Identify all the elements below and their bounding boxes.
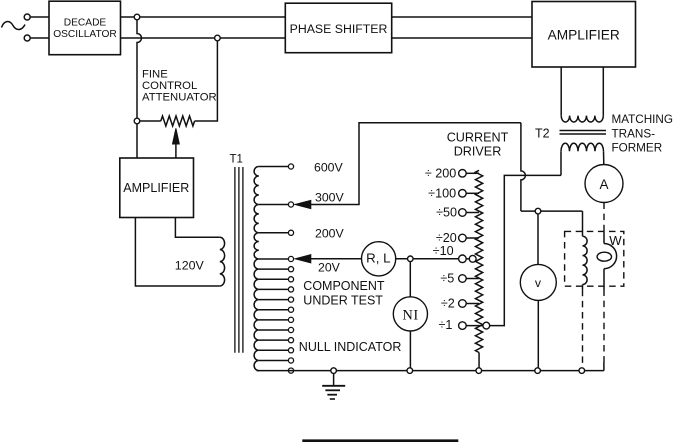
- svg-text:T1: T1: [230, 154, 243, 166]
- svg-text:DRIVER: DRIVER: [454, 145, 502, 159]
- junction node above null indicator: [408, 256, 414, 262]
- junction node bus at ground: [331, 368, 337, 374]
- input terminal lower: [24, 35, 30, 41]
- junction node attenuator left: [134, 118, 140, 124]
- wattmeter voltage coil: [604, 244, 617, 269]
- wattmeter voltage coil lead: [603, 231, 605, 243]
- svg-text:CURRENT: CURRENT: [447, 131, 509, 145]
- svg-text:PHASE SHIFTER: PHASE SHIFTER: [290, 22, 388, 36]
- dashed lead ammeter to wattmeter box: [603, 203, 605, 232]
- ground bus wire: [257, 370, 604, 372]
- wire 300V selector to current driver top line: [310, 123, 521, 205]
- svg-text:A: A: [599, 177, 608, 192]
- wattmeter current coil tail: [582, 285, 584, 290]
- svg-text:AMPLIFIER: AMPLIFIER: [123, 181, 189, 195]
- junction node upper rail: [134, 14, 140, 20]
- divider tap terminals: [459, 170, 467, 178]
- wire amplifier to T2 primary right: [602, 67, 604, 116]
- svg-text:OSCILLATOR: OSCILLATOR: [53, 29, 117, 40]
- junction node bus at NI: [407, 368, 413, 374]
- wire lower rail oscillator to phase shifter: [121, 37, 286, 39]
- block AMPLIFIER left: [120, 158, 194, 218]
- selector arrow at 20V tap: [295, 255, 311, 263]
- svg-text:TRANS-: TRANS-: [612, 127, 656, 140]
- wire to W box and V meter: [521, 210, 583, 212]
- junction node bus at wattmeter: [579, 368, 585, 374]
- wire amplifier right lead to T1 primary top: [175, 218, 219, 238]
- wire attenuator junction down to left amplifier: [136, 124, 138, 158]
- selector arrow at 300V tap: [295, 200, 311, 208]
- dashed corner to bus: [603, 362, 605, 371]
- svg-text:FINE: FINE: [142, 68, 168, 80]
- svg-text:÷10: ÷10: [433, 244, 454, 258]
- svg-text:ATTENUATOR: ATTENUATOR: [142, 91, 217, 103]
- wire R,L meter to divider tap 10: [396, 258, 459, 260]
- wire lower rail phase shifter to amplifier: [392, 37, 532, 39]
- svg-text:COMPONENT: COMPONENT: [303, 279, 385, 293]
- block PHASE SHIFTER: [285, 3, 391, 53]
- resistor divider chain (current driver): [475, 170, 482, 352]
- svg-text:300V: 300V: [315, 191, 345, 205]
- svg-text:MATCHING: MATCHING: [612, 113, 673, 126]
- svg-text:NI: NI: [402, 307, 419, 323]
- svg-text:NULL INDICATOR: NULL INDICATOR: [299, 340, 402, 354]
- svg-text:UNDER TEST: UNDER TEST: [303, 293, 383, 307]
- input terminal upper: [24, 14, 30, 20]
- wire 20V selector to R,L meter: [310, 258, 361, 260]
- svg-text:÷100: ÷100: [428, 186, 456, 200]
- svg-text:200V: 200V: [315, 227, 345, 241]
- wire lower input: [30, 37, 49, 39]
- svg-text:FORMER: FORMER: [612, 142, 663, 155]
- wire NI meter to ground bus: [409, 331, 411, 368]
- svg-text:T2: T2: [535, 126, 550, 140]
- svg-text:÷50: ÷50: [436, 206, 457, 220]
- svg-text:÷5: ÷5: [440, 272, 454, 286]
- transformer T1 secondary winding: [254, 167, 259, 371]
- wire junction down to NI meter: [409, 262, 411, 297]
- ground symbol: [333, 373, 335, 385]
- dashed lead current coil to bus: [582, 290, 584, 368]
- svg-text:DECADE: DECADE: [64, 17, 107, 28]
- wattmeter dashed enclosure: [565, 231, 624, 286]
- svg-text:÷ 200: ÷ 200: [425, 166, 456, 180]
- divider wiper contact at tap 10: [466, 258, 469, 260]
- transformer T1 primary winding: [220, 237, 225, 286]
- junction node bus at divider: [476, 368, 482, 374]
- block AMPLIFIER right: [532, 2, 636, 68]
- svg-text:R, L: R, L: [366, 251, 390, 266]
- T1 secondary tap terminals: [288, 164, 293, 169]
- wire upper rail oscillator to phase shifter: [121, 16, 286, 18]
- transformer T2 secondary winding: [561, 143, 604, 151]
- wire tap 1 riser to T2 secondary: [490, 175, 561, 325]
- wire current driver line down with hop: [521, 123, 526, 211]
- wattmeter current coil: [583, 236, 588, 284]
- wire T2 secondary right leg to ammeter: [603, 151, 605, 164]
- divider wiper contact at tap 1: [466, 325, 483, 327]
- svg-text:600V: 600V: [314, 160, 344, 174]
- wire drop from upper rail with hop over lower rail: [137, 20, 142, 118]
- svg-text:÷1: ÷1: [438, 318, 452, 332]
- svg-text:v: v: [535, 276, 542, 290]
- meter V voltmeter: [520, 264, 556, 300]
- AC source symbol: [2, 22, 26, 30]
- wiper arrow of attenuator: [175, 142, 177, 158]
- transformer T2 primary winding: [561, 116, 603, 122]
- meter A ammeter: [585, 165, 623, 203]
- wire T2 secondary left leg: [560, 151, 562, 175]
- resistor fine control attenuator: [161, 116, 195, 126]
- junction node above voltmeter: [535, 208, 541, 214]
- svg-text:÷2: ÷2: [441, 297, 455, 311]
- wire attenuator left lead: [140, 120, 161, 122]
- dashed lead voltage coil to bus corner: [603, 290, 605, 363]
- junction node lower rail: [215, 35, 221, 41]
- transformer T2 core: [560, 130, 607, 132]
- wire upper rail phase shifter to amplifier: [392, 16, 532, 18]
- footer rule: [302, 439, 458, 442]
- T1 secondary tap stubs: [259, 166, 289, 168]
- wire drop from lower rail to attenuator right end: [195, 41, 218, 121]
- wire upper input: [30, 16, 49, 18]
- meter NI null indicator: [393, 297, 427, 331]
- wattmeter current coil lead: [582, 211, 584, 236]
- wire amplifier left lead to T1 primary bottom: [135, 218, 219, 287]
- divider tap stubs: [466, 172, 479, 174]
- svg-text:AMPLIFIER: AMPLIFIER: [548, 27, 620, 42]
- svg-text:20V: 20V: [318, 261, 341, 275]
- svg-text:CONTROL: CONTROL: [142, 80, 197, 92]
- svg-text:÷20: ÷20: [436, 231, 457, 245]
- junction node bus at voltmeter: [535, 368, 541, 374]
- wire amplifier to T2 primary left: [560, 67, 562, 116]
- meter R,L (component under test): [362, 242, 396, 276]
- wire voltmeter top lead: [537, 214, 539, 264]
- block DECADE OSCILLATOR: [49, 1, 121, 55]
- svg-text:120V: 120V: [175, 259, 205, 273]
- wattmeter voltage coil tail: [603, 269, 605, 290]
- wire voltmeter bottom lead: [537, 300, 539, 367]
- transformer T1 core: [234, 167, 236, 353]
